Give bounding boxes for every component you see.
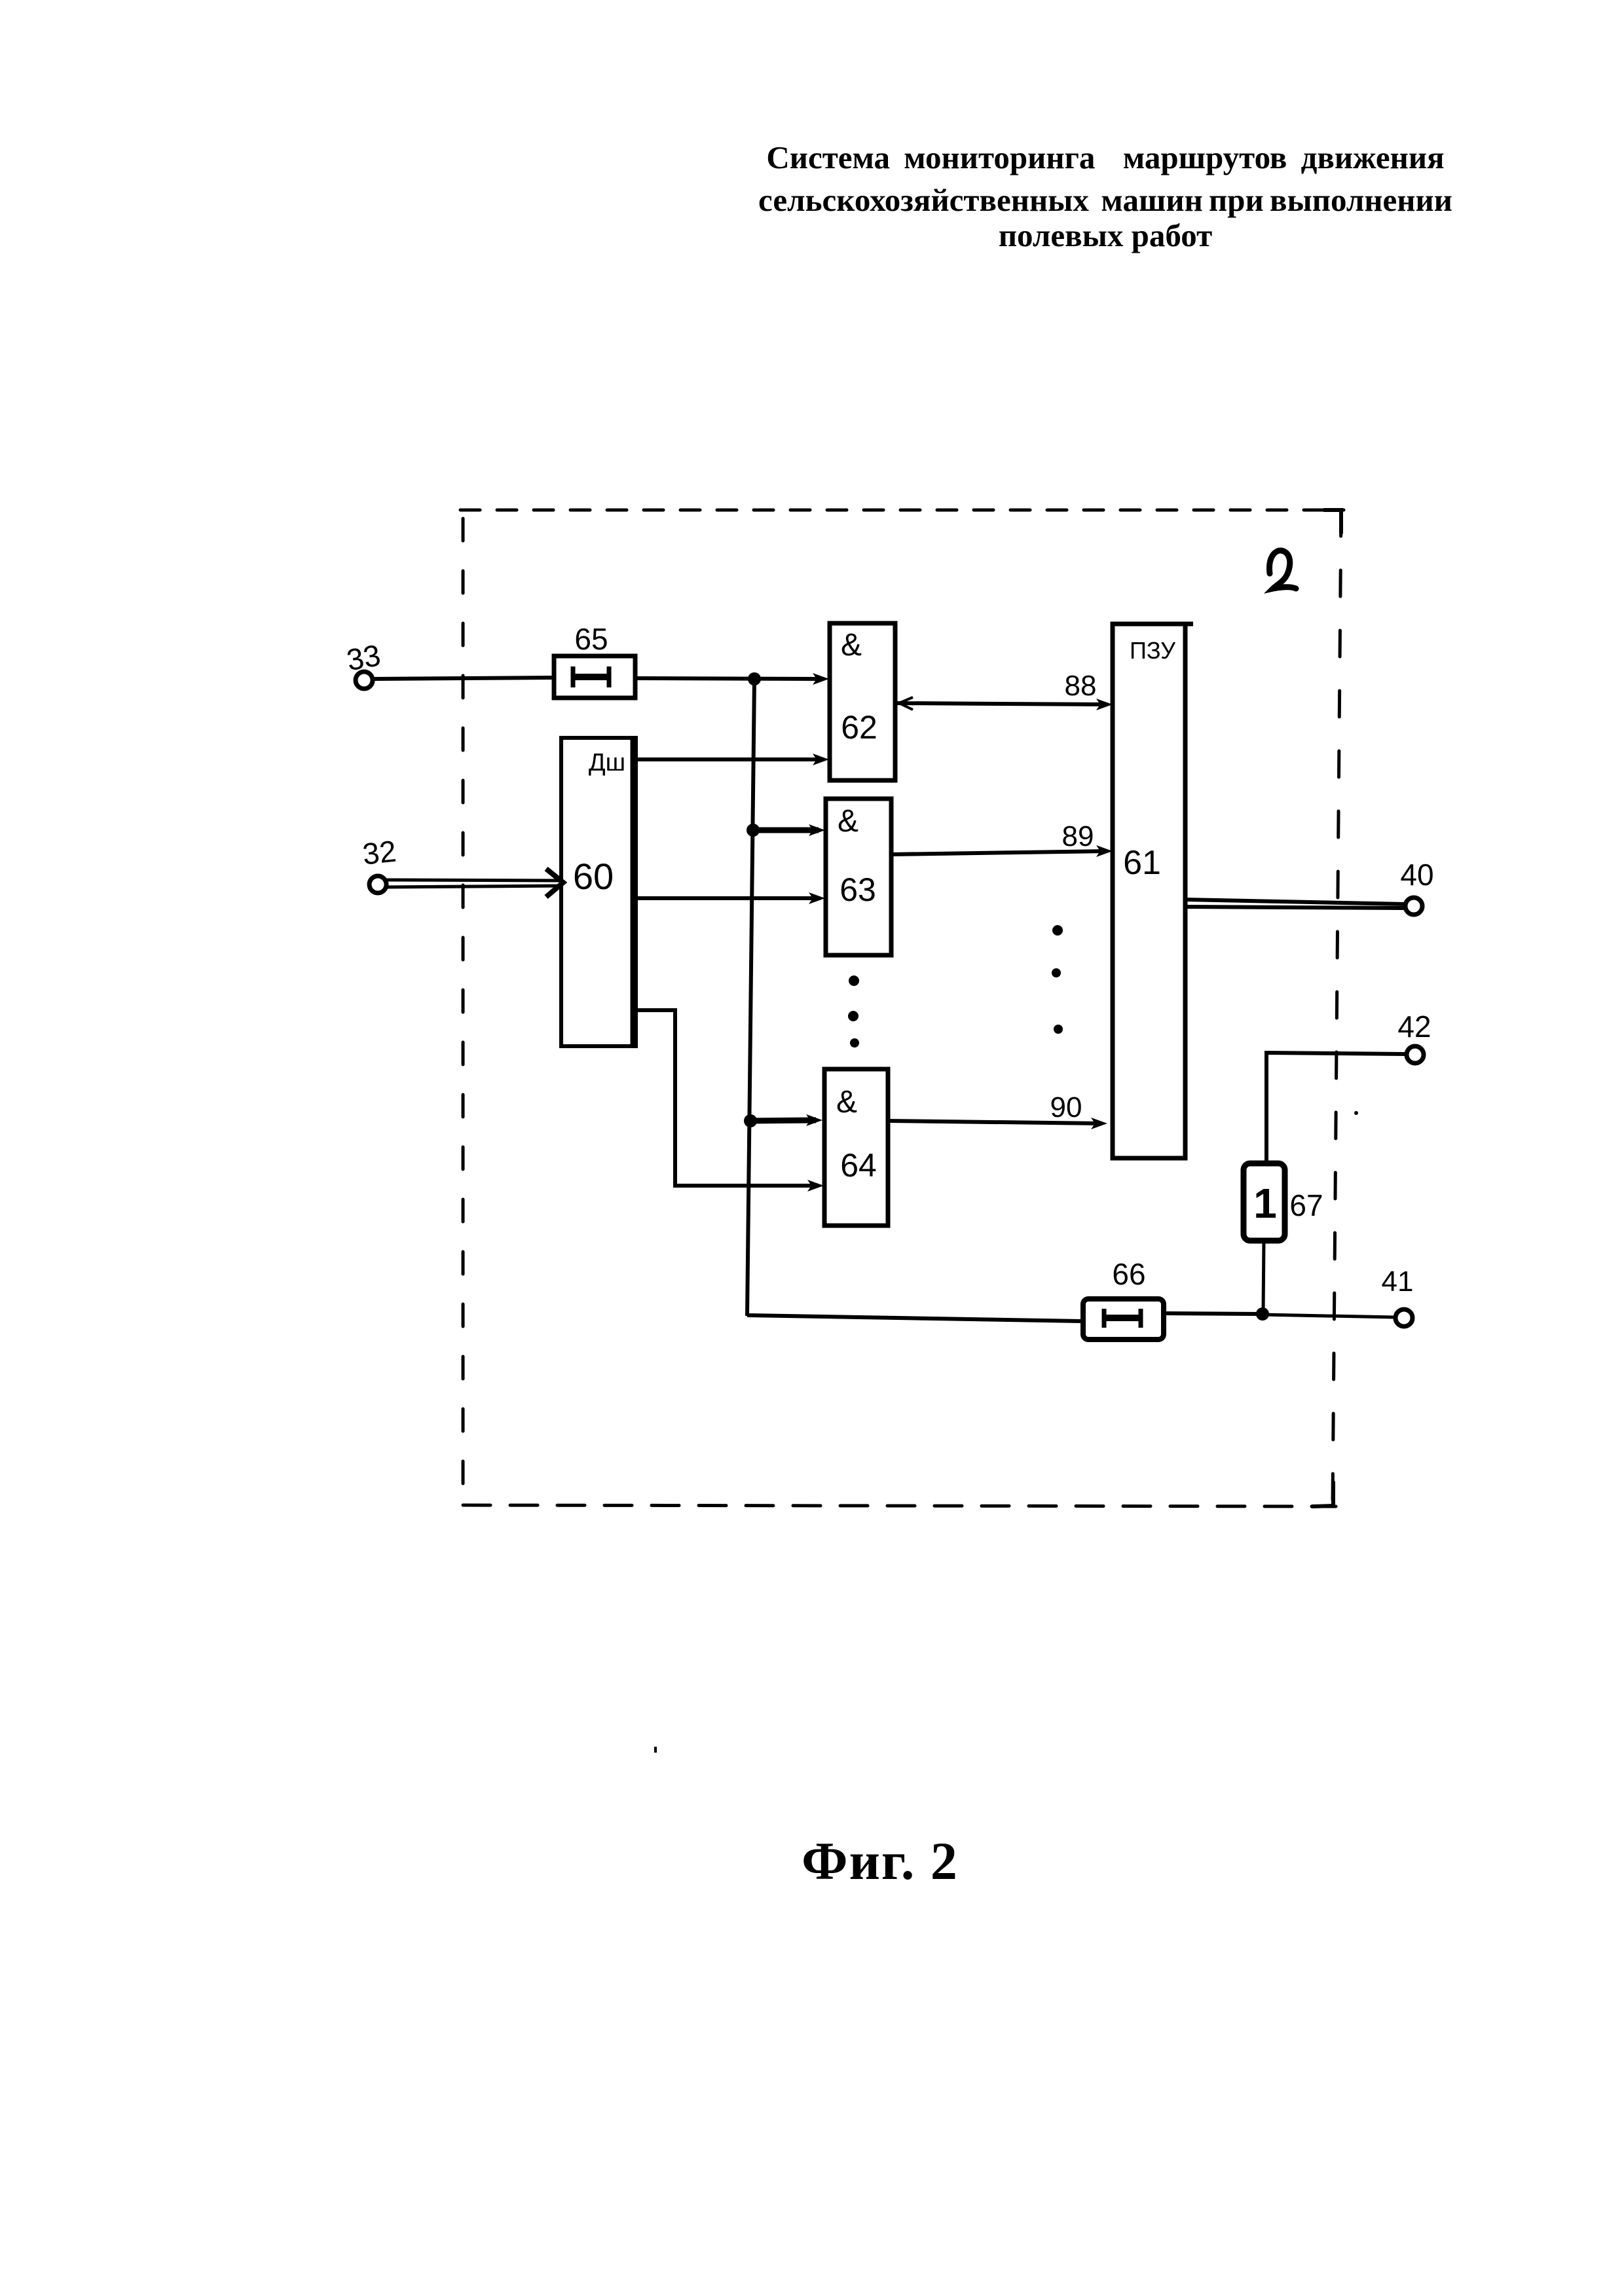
bus 61 to 40 [1185, 900, 1405, 908]
AND gate 63 [826, 799, 891, 955]
svg-text:1: 1 [1253, 1180, 1277, 1227]
label 61 [1123, 844, 1161, 882]
wire 64 to 61 (net 90) [888, 1118, 1107, 1129]
label 67 [1289, 1188, 1323, 1222]
ellipsis dots between 63 and 64 [848, 975, 859, 1048]
svg-text:42: 42 [1397, 1010, 1431, 1044]
main vertical wire [747, 679, 754, 1316]
figure caption [736, 1831, 1024, 1892]
wire 66 to node D [1164, 1313, 1263, 1314]
svg-text:88: 88 [1065, 670, 1097, 702]
wire 62 to 61 (net 88) [895, 697, 1113, 710]
junction node C [744, 1114, 757, 1127]
svg-text:66: 66 [1112, 1257, 1145, 1291]
label 41 [1382, 1266, 1414, 1298]
svg-text:61: 61 [1123, 844, 1161, 882]
label 2 of enclosure [1269, 551, 1296, 589]
wire 33 to 65 [373, 678, 554, 679]
label 66 [1112, 1257, 1145, 1291]
label & of 64 [836, 1085, 857, 1120]
wire 60 to 62 second input [636, 754, 829, 765]
junction node D [1256, 1307, 1269, 1321]
junction node B [747, 824, 760, 837]
svg-text:65: 65 [574, 622, 608, 656]
wire 67 to node D [1263, 1241, 1264, 1314]
title text [680, 138, 1531, 255]
terminal 41 [1395, 1309, 1412, 1326]
svg-text:&: & [838, 804, 858, 839]
wire node C to 64 first input [750, 1114, 822, 1126]
svg-text:67: 67 [1289, 1188, 1323, 1222]
dashed enclosure bottom edge [463, 1505, 1336, 1506]
label 60 [573, 856, 614, 897]
junction node A [748, 672, 761, 685]
label 63 [840, 871, 876, 908]
label 65 [574, 622, 608, 656]
delay element 65 [554, 656, 635, 698]
svg-text:40: 40 [1400, 858, 1433, 892]
label 64 [840, 1147, 877, 1184]
svg-text:60: 60 [573, 856, 614, 897]
terminal 32 [369, 876, 386, 893]
inverter 67 [1244, 1163, 1285, 1241]
svg-text:ПЗУ: ПЗУ [1130, 637, 1176, 664]
wire 67 to 42 [1266, 1053, 1406, 1163]
label 89 [1062, 820, 1094, 852]
label & of 62 [841, 628, 862, 663]
terminal 42 [1407, 1046, 1424, 1063]
svg-text:33: 33 [344, 638, 383, 677]
svg-text:62: 62 [841, 709, 877, 746]
wire 60 to 63 second input [636, 892, 825, 904]
label Дш [589, 749, 625, 776]
svg-text:63: 63 [840, 871, 876, 908]
svg-text:&: & [841, 628, 862, 663]
wire 60 lower output to 64 second input [636, 1010, 824, 1192]
bus 32 to 60 [386, 869, 563, 897]
wire 63 to 61 (net 89) [891, 845, 1113, 857]
ellipsis dots between nets 89 and 90 [1052, 925, 1063, 1034]
stray ink dot near 67 [1354, 1111, 1358, 1115]
dashed enclosure right edge [1333, 510, 1341, 1504]
bottom wire from vertical to 66 [747, 1315, 1083, 1321]
label ПЗУ [1130, 637, 1176, 664]
svg-text:Дш: Дш [589, 749, 625, 776]
wire 65 to 62 [635, 673, 829, 685]
enclosure bottom-right corner tick [1312, 1482, 1333, 1506]
wire node D to 41 [1263, 1315, 1395, 1317]
label 62 [841, 709, 877, 746]
enclosure top-right corner tick [1324, 510, 1341, 533]
svg-text:89: 89 [1062, 820, 1094, 852]
decoder 60 [561, 738, 636, 1046]
AND gate 64 [824, 1069, 888, 1226]
terminal 40 [1405, 898, 1422, 915]
svg-text:32: 32 [361, 834, 397, 871]
dashed enclosure left edge [462, 519, 465, 1504]
label & of 63 [838, 804, 858, 839]
svg-text:64: 64 [840, 1147, 877, 1184]
delay element 66 [1083, 1299, 1164, 1339]
ROM 61 [1113, 624, 1193, 1158]
AND gate 62 [830, 623, 895, 780]
label 32 [361, 834, 397, 871]
label 40 [1400, 858, 1433, 892]
label 88 [1065, 670, 1097, 702]
dashed enclosure top edge [460, 509, 1344, 512]
terminal 33 [356, 672, 373, 689]
svg-text:&: & [836, 1085, 857, 1120]
svg-text:90: 90 [1050, 1091, 1082, 1123]
svg-text:41: 41 [1382, 1266, 1414, 1298]
label 90 [1050, 1091, 1082, 1123]
stray ink speck [654, 1747, 657, 1753]
label 33 [344, 638, 383, 677]
wire node B to 63 first input [753, 824, 825, 836]
label 42 [1397, 1010, 1431, 1044]
